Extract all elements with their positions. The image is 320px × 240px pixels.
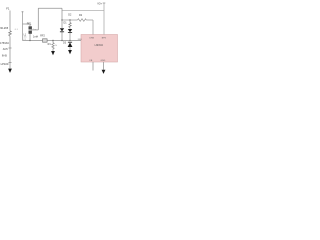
svg-text:LNK302: LNK302 xyxy=(95,45,104,47)
svg-text:90-265: 90-265 xyxy=(0,27,8,30)
svg-text:175VAC: 175VAC xyxy=(0,42,9,45)
svg-text:1m: 1m xyxy=(33,29,36,31)
svg-text:RF2: RF2 xyxy=(40,35,45,38)
svg-text:IN-B: IN-B xyxy=(2,54,7,57)
svg-text:F1: F1 xyxy=(6,7,10,11)
svg-text:LP100: LP100 xyxy=(1,62,9,66)
svg-text:RF1: RF1 xyxy=(27,22,32,25)
svg-text:GND: GND xyxy=(101,60,106,62)
svg-text:DRN: DRN xyxy=(90,37,95,39)
svg-text:1mH: 1mH xyxy=(33,35,38,38)
svg-text:BPS: BPS xyxy=(102,37,107,39)
svg-text:AC5: AC5 xyxy=(3,48,8,51)
svg-text:VO+: VO+ xyxy=(97,2,102,5)
